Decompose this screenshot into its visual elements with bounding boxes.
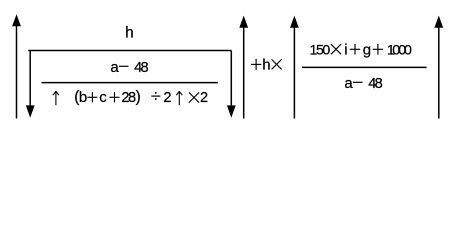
svg-text:a: a (110, 59, 119, 76)
operator +: full-width plus of +h× (251, 59, 261, 70)
F2 numerator: full-width times sign (331, 44, 341, 54)
svg-text:g: g (363, 42, 371, 59)
tall up-arrow A3 (left of fraction F2) (290, 16, 299, 119)
fraction F2 bar (302, 66, 427, 68)
svg-text:2: 2 (163, 90, 171, 106)
svg-text:h: h (125, 24, 134, 41)
fraction F1 middle bar (42, 82, 218, 84)
svg-text:2: 2 (200, 90, 208, 106)
svg-text:i: i (344, 42, 347, 59)
svg-text:b: b (79, 89, 87, 106)
operator ×: full-width times of +h× (272, 59, 282, 69)
tall up-arrow A2 (right of fraction F1) (239, 16, 248, 119)
down-arrow D1 (hangs from left end of F1 top bar) (26, 51, 35, 118)
F2 denominator text a-48 (344, 75, 382, 92)
svg-text:8: 8 (375, 76, 383, 92)
F2 numerator: full-width plus 2 (373, 44, 383, 55)
tall up-arrow A4 (far right) (434, 16, 443, 119)
svg-text:0: 0 (322, 43, 330, 59)
svg-text:a: a (344, 75, 353, 92)
tall up-arrow A1 (far left) (12, 14, 21, 118)
svg-text:0: 0 (404, 43, 412, 59)
F1 bottom row: full-width divide sign (151, 92, 160, 100)
F1 bottom row: full-width plus 2 (109, 92, 119, 102)
svg-text:): ) (136, 88, 141, 105)
F1 middle text a-48 (110, 59, 148, 76)
svg-text:8: 8 (141, 60, 149, 76)
F2 numerator: full-width plus 1 (350, 44, 360, 55)
F1 bottom row: up-arrow glyph 1 (53, 91, 59, 105)
svg-text:c: c (99, 89, 107, 106)
fraction F1 top bar (28, 50, 231, 52)
svg-text:h: h (262, 57, 270, 74)
F1 bottom row: up-arrow glyph 2 (176, 91, 182, 105)
F1 bottom row: full-width plus 1 (87, 92, 97, 102)
F1 bottom row: full-width times sign (189, 92, 199, 102)
down-arrow D2 (hangs from right end of F1 top bar) (227, 51, 236, 118)
